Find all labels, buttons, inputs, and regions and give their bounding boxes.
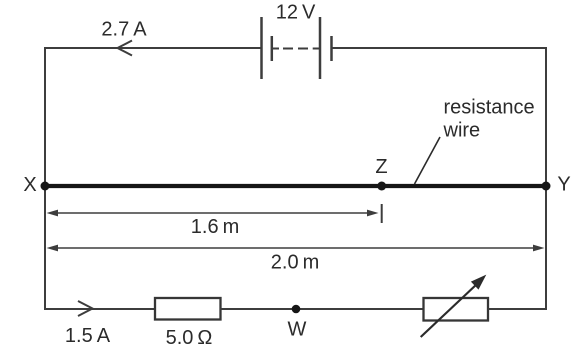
svg-text:X: X [23, 174, 36, 196]
svg-text:W: W [288, 319, 307, 341]
wire bottom segment 2 [220, 308, 424, 310]
svg-text:12 V: 12 V [276, 2, 316, 24]
svg-text:Z: Z [375, 156, 387, 178]
svg-text:5.0 Ω: 5.0 Ω [166, 327, 213, 349]
wire top-right segment [332, 47, 547, 49]
svg-text:2.0 m: 2.0 m [271, 251, 319, 273]
resistance wire X-Y [45, 184, 546, 188]
battery B1 [262, 17, 332, 79]
leader line to resistance wire [415, 137, 441, 184]
wire left vertical [44, 47, 46, 310]
wire top-left segment [45, 47, 262, 49]
svg-text:2.7 A: 2.7 A [101, 19, 147, 41]
wire bottom segment 1 [45, 308, 156, 310]
svg-text:resistance: resistance [444, 96, 535, 118]
svg-text:wire: wire [443, 119, 481, 141]
node X [41, 182, 50, 191]
svg-text:1.5 A: 1.5 A [65, 325, 111, 347]
variable resistor [421, 275, 488, 337]
svg-text:1.6 m: 1.6 m [191, 216, 239, 238]
current arrow 1.5 A [78, 301, 93, 316]
current arrow 2.7 A [118, 41, 133, 56]
resistor R1 [155, 298, 221, 320]
dimension 2.0 m [47, 245, 545, 252]
node Z [377, 182, 386, 191]
dimension 1.6 m [47, 204, 382, 223]
node W [292, 305, 301, 314]
svg-text:Y: Y [557, 174, 570, 196]
wire bottom segment 3 [488, 308, 547, 310]
node Y [542, 182, 551, 191]
wire right vertical [545, 47, 547, 310]
